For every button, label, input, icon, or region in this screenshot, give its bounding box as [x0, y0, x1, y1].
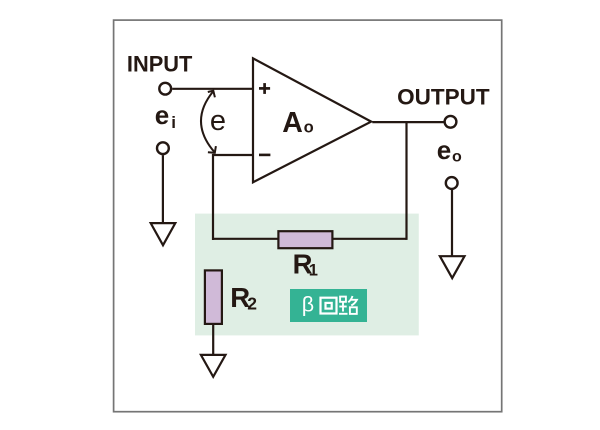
svg-text:i: i: [171, 113, 176, 132]
ground (input side): [151, 223, 176, 245]
pin + (non-inverting input): [259, 83, 270, 94]
wire: e_i terminal down to ground: [162, 155, 164, 224]
label R1: [293, 248, 318, 279]
pin - (inverting input): [259, 154, 270, 157]
wire: feedback vertical from inverting input down to R1/R2 node: [212, 154, 214, 240]
op-amp U1 triangle: [253, 58, 371, 182]
ground (output side): [440, 256, 465, 278]
label e_o: [437, 135, 462, 166]
output terminal circle: [445, 116, 457, 128]
label kanji RO (michi) drawn as strokes: [339, 296, 357, 314]
svg-text:e: e: [437, 135, 451, 165]
svg-text:o: o: [304, 119, 314, 137]
source terminal circle under e_i: [157, 142, 169, 154]
resistor R2: [205, 270, 222, 324]
terminal circle under e_o: [446, 177, 458, 189]
resistor R1: [278, 231, 332, 248]
svg-text:e: e: [210, 105, 226, 137]
label e_i: [155, 100, 176, 132]
wire: output branch down to R1 right end: [405, 122, 407, 240]
beta kairo (feedback network) label box: [290, 289, 367, 322]
svg-text:A: A: [282, 107, 303, 139]
ground (R2 / beta network): [201, 355, 226, 377]
wire: inverting input to feedback node: [213, 154, 253, 156]
svg-text:INPUT: INPUT: [127, 51, 193, 76]
svg-text:e: e: [155, 100, 169, 130]
wire: e_o terminal down to ground: [451, 190, 453, 257]
label A0 (open-loop gain): [282, 107, 313, 139]
svg-text:1: 1: [309, 262, 318, 280]
label R2: [230, 282, 257, 313]
wire: R2 bottom to ground: [212, 325, 214, 356]
label kanji KAI (mawaru) drawn as strokes: [321, 298, 337, 314]
wire: op-amp output to OUTPUT terminal: [372, 121, 444, 123]
wire: R1 horizontal rail: [213, 238, 407, 240]
wire: input terminal to op-amp + input: [172, 88, 252, 90]
svg-text:β: β: [302, 293, 314, 317]
svg-text:OUTPUT: OUTPUT: [397, 84, 490, 109]
beta network shaded panel: [195, 214, 419, 336]
input terminal circle: [159, 83, 171, 95]
svg-text:2: 2: [247, 294, 257, 314]
node e arc with arrows (differential input voltage): [201, 91, 216, 153]
svg-text:o: o: [452, 148, 462, 165]
